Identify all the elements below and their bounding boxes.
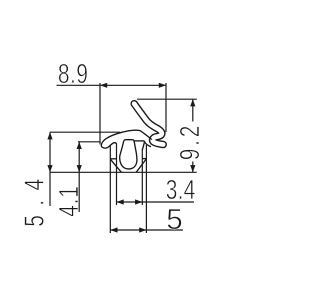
gap in dim line for text 9.2 (190, 122, 195, 162)
extension line top of dim 4.1 (78, 141, 101, 143)
extension line outer-right wall (x=146.4) (145, 145, 147, 233)
extension line outer-left wall (x=110.3) (109, 145, 111, 233)
extension line left of dim 8.9 (99, 83, 101, 145)
profile S-lip ribbon (black band) (134, 104, 163, 145)
profile S-lip ribbon (white interior) (134, 104, 163, 145)
svg-text:4.1: 4.1 (54, 185, 85, 216)
svg-text:5.4: 5.4 (20, 169, 51, 226)
extension line top of dim 9.2 (137, 98, 197, 100)
extension line top of dim 5.4 (50, 131, 120, 133)
svg-text:3.4: 3.4 (166, 175, 196, 206)
dimension line 5.4 (left vertical) (47, 132, 52, 206)
left wall slot line (110, 158, 116, 160)
svg-text:5: 5 (166, 203, 182, 236)
right wall barb diagonal (136, 159, 146, 172)
profile blade top edge and left curl (101, 130, 151, 148)
svg-text:8.9: 8.9 (58, 59, 89, 90)
left wall barb diagonal (110, 159, 121, 172)
dimension line 5 (lowest horizontal) (110, 227, 183, 232)
profile teardrop hollow in stem (120, 140, 137, 169)
dimension line 4.1 (second left vertical) (77, 142, 82, 212)
extension line stem right (x=141.8) (141, 149, 143, 205)
right wall slot line (142, 158, 146, 160)
stem top shelf line (134, 140, 144, 142)
dimension line 8.9 (top horizontal) (57, 83, 167, 88)
extension line right of dim 8.9 (165, 83, 167, 132)
stem right edge upper slant (142, 141, 144, 150)
foot underside into stem right edge (145, 142, 152, 147)
baseline extension (bottom reference for 9.2 / 5.4 / 4.1) (50, 171, 197, 173)
svg-text:9.2: 9.2 (175, 123, 206, 160)
extension line inner-left / stem left (x=116.5) (116, 144, 118, 205)
dimension line 3.4 (bottom horizontal) (117, 199, 195, 204)
dimension line 9.2 (right vertical) (190, 99, 195, 172)
